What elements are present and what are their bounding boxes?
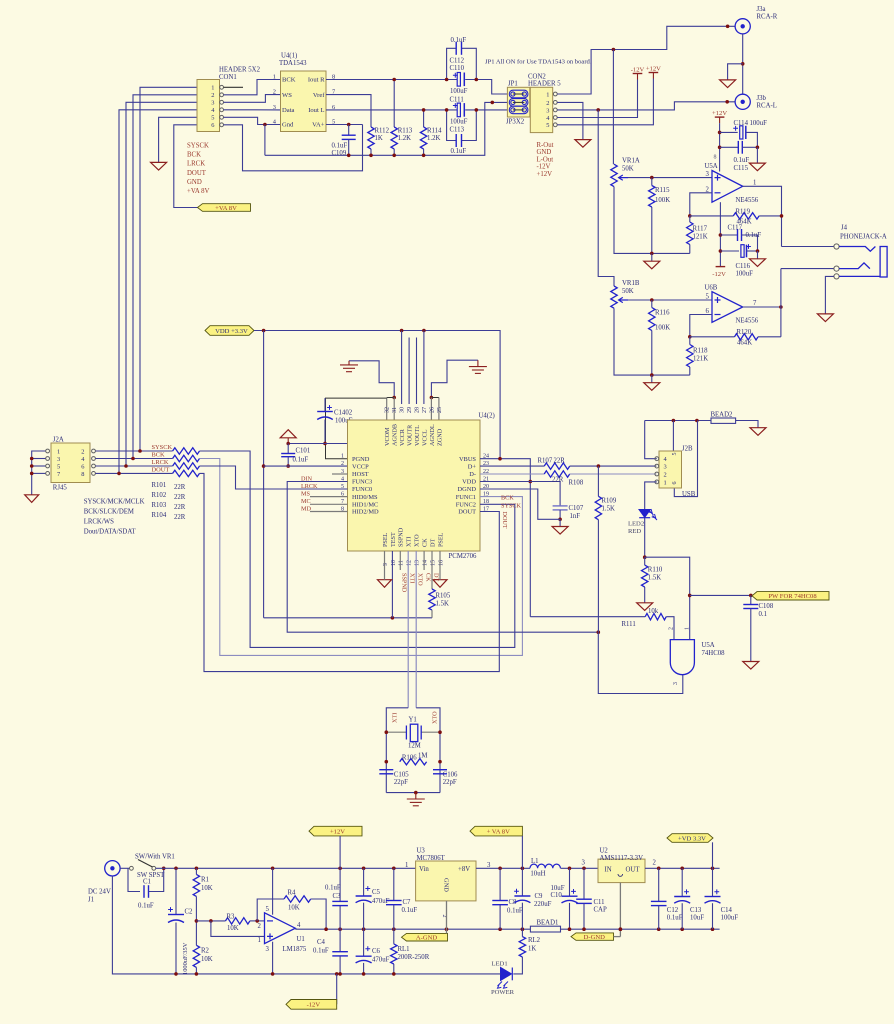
wire C113 loop right bbox=[462, 110, 477, 141]
svg-text:R114: R114 bbox=[427, 127, 442, 134]
stub RL1 bottom bbox=[393, 964, 395, 974]
svg-text:12M: 12M bbox=[408, 743, 421, 750]
IC U4(1) TDA1543 bbox=[281, 71, 327, 132]
svg-text:2: 2 bbox=[258, 923, 262, 930]
svg-text:14: 14 bbox=[423, 560, 429, 566]
wire U1 vcc bbox=[272, 868, 274, 914]
wire CON1 pin4 to TDA Data bbox=[224, 109, 281, 111]
junction U2 out bbox=[657, 867, 661, 871]
svg-text:LRCK: LRCK bbox=[152, 459, 169, 466]
svg-text:2: 2 bbox=[664, 471, 667, 478]
svg-text:1.2K: 1.2K bbox=[427, 135, 440, 142]
op-amp U1 minus bbox=[267, 920, 273, 922]
capacitor C10 bbox=[562, 896, 578, 903]
wire analog gnd rail bbox=[265, 102, 508, 155]
junction TEST rail bbox=[391, 616, 395, 620]
junction top rail x363.6 bbox=[362, 867, 366, 871]
svg-text:10K: 10K bbox=[201, 956, 213, 963]
svg-text:C111: C111 bbox=[450, 97, 464, 104]
junction L-Out branch bbox=[596, 108, 600, 112]
wire XTO riser bbox=[415, 551, 417, 708]
junction VCCL bbox=[422, 329, 426, 333]
svg-text:LED2: LED2 bbox=[628, 521, 644, 528]
stub PSEL16 down bbox=[439, 551, 441, 580]
svg-text:VR1B: VR1B bbox=[622, 280, 640, 287]
wire R111 to gate bbox=[666, 617, 674, 640]
junction top rail x272.6 bbox=[271, 867, 275, 871]
svg-text:1.2K: 1.2K bbox=[398, 135, 411, 142]
svg-text:FUNC1: FUNC1 bbox=[456, 494, 476, 501]
svg-text:AGNDB: AGNDB bbox=[392, 424, 399, 446]
wire VR1A bottom bbox=[614, 187, 690, 254]
wire U2 gnd stub bbox=[619, 883, 621, 937]
wire CON1 pin2 to TDA BCK bbox=[224, 80, 281, 95]
svg-text:RCA-L: RCA-L bbox=[757, 103, 777, 110]
junction C112 left bbox=[445, 78, 449, 82]
svg-text:IN: IN bbox=[605, 867, 612, 874]
svg-text:CON1: CON1 bbox=[219, 74, 237, 81]
pin circle CON2-4 bbox=[553, 116, 557, 120]
svg-text:10K: 10K bbox=[288, 904, 300, 911]
wire JP1 row2 link bbox=[513, 101, 524, 103]
svg-text:R109: R109 bbox=[602, 498, 617, 505]
svg-text:470uF: 470uF bbox=[372, 957, 390, 964]
svg-text:R2: R2 bbox=[201, 948, 210, 955]
svg-text:3: 3 bbox=[266, 946, 270, 953]
junction dgnd x569.5 bbox=[568, 927, 572, 931]
svg-text:HEADER 5X2: HEADER 5X2 bbox=[219, 67, 261, 74]
svg-text:VCCR: VCCR bbox=[399, 428, 406, 446]
junction rail x348.7 bbox=[347, 154, 351, 158]
wire ZGND down bbox=[438, 398, 440, 421]
pin circle CON1-3 bbox=[220, 100, 224, 104]
svg-text:U5A: U5A bbox=[702, 642, 715, 649]
wire U5A output bbox=[743, 186, 782, 246]
svg-text:C3: C3 bbox=[333, 893, 342, 900]
stub C11 top bbox=[583, 868, 585, 899]
svg-text:3: 3 bbox=[546, 107, 549, 114]
wire Vref to R112 bbox=[326, 95, 371, 127]
wire U2 out rail bbox=[645, 867, 720, 869]
crystal Y1 bbox=[406, 724, 421, 741]
resistor R106 bbox=[400, 759, 427, 765]
svg-text:CON2: CON2 bbox=[528, 73, 546, 80]
earth ground crystal bbox=[407, 799, 425, 806]
pin circle J2A-1 bbox=[46, 449, 50, 453]
svg-text:C2: C2 bbox=[185, 909, 194, 916]
wire XTO to crystal bbox=[416, 708, 440, 793]
junction VBUS bbox=[498, 457, 502, 461]
svg-text:5: 5 bbox=[546, 122, 549, 129]
svg-text:2: 2 bbox=[653, 859, 657, 866]
pin circle J2A-3 bbox=[46, 457, 50, 461]
stub gnd C115 bbox=[756, 147, 758, 163]
svg-text:J2B: J2B bbox=[682, 446, 693, 453]
resistor R113 bbox=[391, 127, 397, 149]
junction C9 top bbox=[521, 867, 525, 871]
svg-text:NE4556: NE4556 bbox=[736, 197, 759, 204]
svg-text:RJ45: RJ45 bbox=[53, 484, 68, 491]
svg-text:C107: C107 bbox=[569, 505, 584, 512]
junction C115 right bbox=[756, 146, 760, 150]
stub C14 bottom bbox=[712, 903, 714, 929]
stub C1402 top bbox=[324, 398, 326, 411]
resistor R104 bbox=[173, 470, 200, 476]
svg-text:50K: 50K bbox=[622, 165, 634, 172]
svg-text:16: 16 bbox=[438, 560, 444, 566]
stub C101 bottom bbox=[287, 457, 289, 466]
stub HOST bbox=[332, 473, 348, 475]
stub RL2 top bbox=[521, 929, 523, 936]
svg-text:29: 29 bbox=[407, 407, 413, 413]
svg-text:A-GND: A-GND bbox=[416, 935, 437, 942]
power arrow analog bbox=[280, 430, 296, 438]
junction dgnd x712.5 bbox=[711, 927, 715, 931]
svg-text:28: 28 bbox=[415, 407, 421, 413]
ground VR1A rail bbox=[644, 261, 660, 269]
wire CON1 pin5 to gnd bbox=[159, 117, 197, 162]
capacitor C4 bbox=[332, 952, 348, 956]
svg-text:22R: 22R bbox=[554, 458, 566, 465]
wire J2A left p3 bbox=[32, 458, 46, 460]
svg-text:MD: MD bbox=[301, 505, 312, 512]
stub C14 top bbox=[712, 868, 714, 896]
resistor R1 bbox=[193, 874, 199, 896]
resistor R2 bbox=[193, 945, 199, 967]
svg-text:VCCL: VCCL bbox=[421, 429, 428, 446]
wire CON1 pin3 to TDA WS bbox=[224, 95, 281, 103]
stub C4 top bbox=[339, 929, 341, 951]
svg-text:6: 6 bbox=[672, 482, 678, 485]
wire L-Out down to VR1B bbox=[598, 110, 614, 286]
wire vcca rail bbox=[288, 443, 347, 445]
junction agnd x446.5 bbox=[445, 927, 449, 931]
junction rail x423.6 bbox=[422, 154, 426, 158]
svg-text:R105: R105 bbox=[436, 592, 451, 599]
svg-text:8: 8 bbox=[81, 471, 84, 478]
capacitor C116 bbox=[741, 245, 747, 258]
connector J2A RJ45 bbox=[51, 443, 90, 483]
svg-text:R118: R118 bbox=[693, 347, 708, 354]
wire C1 loop left bbox=[128, 868, 140, 891]
resistor R107 bbox=[544, 463, 570, 469]
svg-text:SSPND: SSPND bbox=[401, 573, 408, 593]
wire C116 left bbox=[720, 250, 739, 252]
power flag A-GND bbox=[402, 933, 448, 941]
junction AGNDL bbox=[430, 396, 434, 400]
junction R118 R120 bbox=[688, 335, 692, 339]
svg-text:0.1uF: 0.1uF bbox=[451, 37, 467, 44]
junction VCCR bbox=[400, 329, 404, 333]
wire shield to gnd bbox=[728, 64, 743, 80]
svg-text:D-: D- bbox=[469, 471, 476, 478]
junction R116 top bbox=[650, 298, 654, 302]
junction gnd rail A bbox=[650, 252, 654, 256]
junction C113 left bbox=[445, 108, 449, 112]
wire C117 right bbox=[742, 235, 758, 251]
svg-text:5: 5 bbox=[672, 453, 678, 456]
stub gnd A bbox=[651, 253, 653, 261]
svg-text:XTO: XTO bbox=[432, 711, 439, 724]
svg-text:2: 2 bbox=[81, 448, 84, 455]
svg-text:1: 1 bbox=[258, 937, 261, 944]
connector J1 DC jack bbox=[105, 861, 120, 876]
wire VDD rail bbox=[254, 331, 500, 459]
capacitor C1402 plus bbox=[327, 405, 332, 410]
wire crystal right bbox=[421, 731, 440, 733]
svg-text:10uH: 10uH bbox=[530, 870, 545, 877]
svg-text:3: 3 bbox=[706, 171, 710, 178]
svg-text:WS: WS bbox=[282, 92, 292, 99]
svg-text:+12V: +12V bbox=[537, 171, 553, 178]
stem A-GND bbox=[446, 929, 448, 933]
svg-text:10: 10 bbox=[391, 560, 397, 566]
svg-text:CK: CK bbox=[422, 538, 429, 547]
wire J2A left p7 bbox=[32, 472, 46, 474]
earth ground right bbox=[469, 367, 487, 374]
svg-text:SW/With VR1: SW/With VR1 bbox=[135, 854, 175, 861]
stub R105 bottom bbox=[431, 610, 433, 618]
junction R106 right bbox=[438, 760, 442, 764]
stub RL1 top bbox=[393, 929, 395, 944]
capacitor C10 plus bbox=[571, 889, 576, 894]
capacitor C2 bbox=[168, 915, 184, 923]
power -12V CON2 bbox=[633, 74, 643, 80]
stub C3 bottom bbox=[339, 906, 341, 930]
svg-text:Vin: Vin bbox=[419, 866, 429, 873]
svg-text:464K: 464K bbox=[737, 340, 752, 347]
wire Iout R net bbox=[326, 79, 457, 81]
ground CON2 pin2 bbox=[575, 140, 591, 148]
svg-text:C9: C9 bbox=[535, 893, 544, 900]
wire R109 vert top bbox=[597, 466, 599, 496]
capacitor C6 plus bbox=[365, 946, 370, 951]
svg-text:SYSCK/MCK/MCLK: SYSCK/MCK/MCLK bbox=[84, 499, 145, 506]
stub C1402 bottom bbox=[324, 420, 326, 444]
connector J3b RCA-L bbox=[735, 94, 750, 109]
wire +8V rail bbox=[476, 867, 530, 869]
wire U1 vee bbox=[272, 942, 274, 974]
pin circle J2B-3 bbox=[655, 464, 659, 468]
svg-text:PCM2706: PCM2706 bbox=[449, 553, 478, 560]
wire C112 loop bbox=[447, 48, 457, 79]
svg-text:R111: R111 bbox=[622, 621, 636, 628]
wire CON1 pin6 to +VA8V flag bbox=[174, 125, 198, 208]
power flag +VA 8V bbox=[470, 826, 522, 836]
junction DIN gate bbox=[597, 630, 601, 634]
capacitor C107 bbox=[553, 506, 568, 510]
svg-text:C112: C112 bbox=[450, 58, 465, 65]
stub R2 bottom bbox=[195, 967, 197, 974]
svg-text:BCK: BCK bbox=[152, 451, 166, 458]
stub C2 bottom bbox=[175, 923, 177, 975]
capacitor C6 bbox=[356, 956, 372, 963]
stub C101 top bbox=[287, 444, 289, 454]
wire LRCK route bbox=[200, 466, 348, 489]
svg-text:Vref: Vref bbox=[313, 92, 325, 99]
wire VDD to VCCP bbox=[263, 331, 265, 618]
svg-text:JP3X2: JP3X2 bbox=[506, 118, 525, 125]
stub C9 top bbox=[521, 868, 523, 896]
svg-text:PW FOR 74HC08: PW FOR 74HC08 bbox=[768, 593, 817, 600]
junction PW row bbox=[688, 594, 692, 598]
svg-text:DOUT: DOUT bbox=[458, 509, 476, 516]
wire DGND jog bbox=[480, 489, 560, 519]
svg-text:31: 31 bbox=[392, 407, 398, 413]
capacitor C11 bbox=[576, 899, 592, 903]
power flag PW FOR 74HC08 bbox=[752, 592, 829, 600]
wire crystal bottom bbox=[386, 792, 440, 794]
svg-text:1nF: 1nF bbox=[570, 513, 581, 520]
power -12V opamp bar bbox=[716, 266, 726, 268]
wire J2B pin1 to LED2 bbox=[645, 482, 657, 510]
svg-text:10K: 10K bbox=[227, 925, 239, 932]
svg-text:L-Out: L-Out bbox=[537, 156, 554, 163]
wire R119 left bbox=[690, 215, 734, 217]
svg-text:100uF: 100uF bbox=[750, 120, 768, 127]
wire VOUTL up bbox=[416, 338, 418, 405]
svg-text:U2: U2 bbox=[600, 847, 609, 854]
wire C112 loop right bbox=[462, 48, 477, 79]
pin dot RCA-L bbox=[725, 100, 729, 104]
junction R114 Iout L bbox=[422, 108, 426, 112]
svg-text:8: 8 bbox=[714, 155, 717, 161]
junction R115 top bbox=[650, 176, 654, 180]
svg-text:J4: J4 bbox=[841, 225, 848, 232]
resistor R114 bbox=[420, 127, 426, 149]
pin circle CON2-2 bbox=[553, 101, 557, 105]
svg-text:AGNDL: AGNDL bbox=[429, 424, 436, 446]
svg-text:1: 1 bbox=[341, 454, 344, 460]
junction agnd x500.1 bbox=[498, 927, 502, 931]
wire D-GND rail bbox=[561, 928, 720, 930]
wire crystal left bbox=[386, 731, 406, 733]
junction top rail x176 bbox=[174, 867, 178, 871]
wire XTI to crystal bbox=[386, 708, 408, 793]
svg-text:SYSCK: SYSCK bbox=[152, 444, 173, 451]
svg-text:SW SPST: SW SPST bbox=[137, 872, 165, 879]
svg-text:0.1uF: 0.1uF bbox=[402, 907, 418, 914]
stub R110 top bbox=[644, 557, 646, 565]
stem +VD 3.3V bbox=[712, 842, 714, 868]
wire VDD to R111 bbox=[530, 616, 645, 618]
stub C6 top bbox=[363, 929, 365, 956]
ground J2A bbox=[25, 495, 39, 503]
svg-text:DC 24V: DC 24V bbox=[88, 889, 111, 896]
svg-text:Dout/DATA/SDAT: Dout/DATA/SDAT bbox=[84, 529, 137, 536]
wire DOUT route bbox=[200, 473, 500, 671]
stub C13 bottom bbox=[681, 903, 683, 929]
junction top rail x196.4 bbox=[195, 867, 199, 871]
svg-text:SSPND: SSPND bbox=[398, 527, 405, 547]
junction gnd rail B bbox=[650, 373, 654, 377]
junction fb node bbox=[255, 919, 259, 923]
pin J1 center bbox=[110, 866, 114, 870]
stub C10 bottom bbox=[569, 903, 571, 929]
stub C11 bottom bbox=[583, 903, 585, 929]
svg-text:U1: U1 bbox=[297, 936, 305, 943]
svg-text:R106: R106 bbox=[402, 754, 417, 761]
junction shield1 bbox=[672, 419, 676, 423]
svg-text:10K: 10K bbox=[201, 885, 213, 892]
junction C1402 bbox=[323, 442, 327, 446]
svg-text:FUNC0: FUNC0 bbox=[352, 486, 372, 493]
junction C1 right bbox=[162, 867, 166, 871]
svg-text:R1: R1 bbox=[201, 877, 209, 884]
svg-text:BEAD1: BEAD1 bbox=[537, 920, 559, 927]
junction C10 top bbox=[568, 867, 572, 871]
op-amp U6B minus bbox=[715, 314, 721, 316]
wire PW chain bbox=[645, 557, 690, 639]
pin J3a center bbox=[741, 24, 745, 28]
wire R-Out down to VR1A bbox=[612, 50, 614, 165]
capacitor C109 bbox=[342, 135, 356, 139]
wire VCOM jog bbox=[387, 397, 395, 399]
ferrite BEAD2 bbox=[711, 418, 736, 423]
svg-text:LRCK/WS: LRCK/WS bbox=[84, 519, 114, 526]
svg-text:+VA 8V: +VA 8V bbox=[215, 205, 237, 212]
svg-text:100K: 100K bbox=[655, 197, 670, 204]
capacitor C113 bbox=[456, 134, 461, 147]
svg-text:121K: 121K bbox=[693, 234, 708, 241]
junction divider bbox=[195, 919, 199, 923]
pin circle CON1-1 bbox=[220, 85, 224, 89]
resistor R101 bbox=[173, 448, 200, 454]
wire BCK row bbox=[95, 458, 172, 460]
junction dgnd x620.4 bbox=[619, 927, 623, 931]
svg-text:RED: RED bbox=[628, 528, 641, 535]
stub PSEL9 down bbox=[384, 551, 386, 580]
junction R113 Iout R bbox=[392, 78, 396, 82]
svg-text:+ VA 8V: + VA 8V bbox=[487, 828, 511, 835]
svg-text:100uF: 100uF bbox=[736, 271, 754, 278]
connector CON2 HEADER 5 bbox=[530, 87, 552, 132]
svg-text:74HC08: 74HC08 bbox=[702, 650, 726, 657]
wire shield col1 bbox=[672, 421, 674, 452]
svg-text:30: 30 bbox=[400, 407, 406, 413]
pin jack sleeve bbox=[834, 274, 839, 279]
svg-text:100uF: 100uF bbox=[450, 119, 468, 126]
wire CON2 gnd bbox=[557, 102, 583, 139]
junction agnd x393.8 bbox=[392, 927, 396, 931]
pin circle J2A-7 bbox=[46, 472, 50, 476]
stub R118 top bbox=[689, 337, 691, 345]
svg-text:2: 2 bbox=[546, 100, 549, 107]
svg-text:R115: R115 bbox=[655, 187, 670, 194]
junction R110 top bbox=[643, 555, 647, 559]
resistor R108 bbox=[544, 471, 570, 477]
stub C10 top bbox=[569, 868, 571, 896]
junction dgnd x682.2 bbox=[680, 927, 684, 931]
jack tip lever bbox=[839, 247, 875, 252]
svg-text:3: 3 bbox=[211, 100, 214, 107]
svg-text:Iout L: Iout L bbox=[308, 107, 324, 114]
svg-text:470uF: 470uF bbox=[372, 898, 390, 905]
svg-text:CK: CK bbox=[424, 573, 431, 582]
pin circle J2A-8 bbox=[92, 472, 96, 476]
svg-text:2: 2 bbox=[273, 89, 276, 96]
stub C3 top bbox=[339, 868, 341, 901]
power flag +12V bbox=[309, 826, 362, 836]
svg-text:22R: 22R bbox=[174, 514, 186, 521]
wire C115 right bbox=[742, 146, 757, 148]
wire CON1 pin4 to bus bbox=[119, 110, 197, 474]
wire C113 loop bbox=[447, 110, 457, 141]
stem crystal gnd bbox=[415, 793, 417, 799]
svg-text:FUNC2: FUNC2 bbox=[456, 502, 476, 509]
svg-text:J3b: J3b bbox=[757, 95, 767, 102]
wire shield col2 bbox=[674, 421, 697, 497]
